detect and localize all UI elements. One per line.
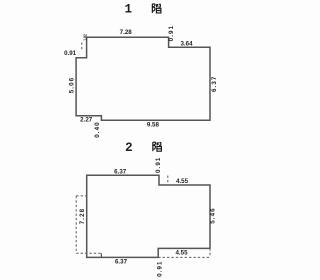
floor2 dashed step floor1-projection top-left [76, 195, 87, 197]
title floor2 kanji kai [153, 142, 162, 151]
svg-text:0.91: 0.91 [168, 25, 175, 41]
svg-text:2.27: 2.27 [80, 116, 93, 123]
floor2 dashed left floor1-projection [75, 196, 77, 251]
floor2 tick bottom-left [100, 253, 102, 257]
svg-text:0.91: 0.91 [157, 260, 164, 276]
svg-text:1: 1 [124, 3, 132, 17]
svg-text:0.40: 0.40 [94, 121, 101, 137]
floor2 outline [87, 175, 210, 257]
svg-text:0.91: 0.91 [155, 157, 162, 173]
svg-text:0.91: 0.91 [64, 50, 77, 57]
floor2 dashed bottom-left floor1-projection [76, 252, 101, 254]
svg-text:5.06: 5.06 [69, 77, 76, 93]
floor2 dashed right step closure [209, 248, 211, 257]
svg-text:9.58: 9.58 [147, 122, 160, 129]
svg-text:4.55: 4.55 [176, 178, 189, 185]
floor1 dim line for 1.82 dashed [81, 43, 83, 51]
svg-text:2: 2 [125, 141, 133, 155]
floor2 dashed bottom-right closure [158, 256, 210, 258]
title floor1 kanji kai [152, 4, 161, 13]
svg-text:1.82: 1.82 [82, 34, 87, 41]
svg-text:7.28: 7.28 [79, 208, 86, 224]
svg-text:5.46: 5.46 [210, 207, 217, 223]
svg-text:6.37: 6.37 [114, 169, 127, 176]
svg-text:6.37: 6.37 [211, 76, 218, 92]
svg-text:4.55: 4.55 [175, 250, 188, 257]
svg-text:3.64: 3.64 [180, 40, 193, 47]
svg-text:6.37: 6.37 [115, 259, 128, 266]
svg-text:7.28: 7.28 [120, 29, 133, 36]
floor1 outline [76, 37, 210, 120]
floor2 dashed extension top 0.91 [167, 176, 169, 185]
